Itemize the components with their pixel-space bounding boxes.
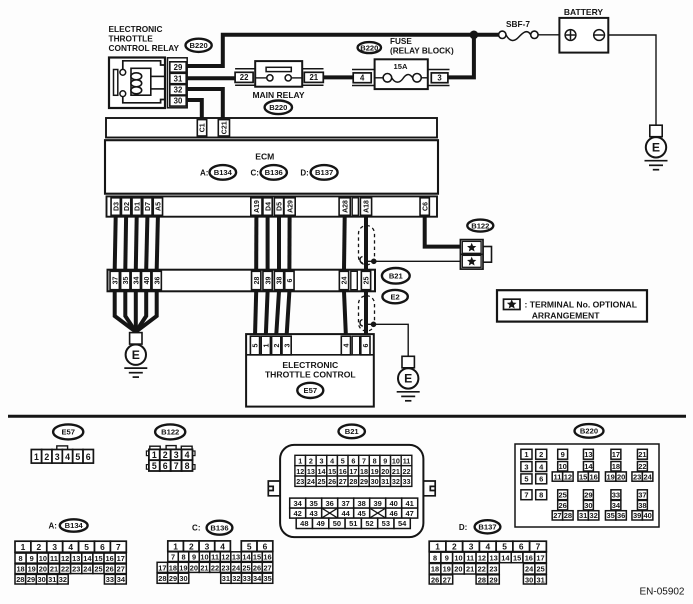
svg-text:24: 24 xyxy=(83,565,92,574)
svg-text:1: 1 xyxy=(524,450,528,459)
svg-text:15: 15 xyxy=(94,554,102,563)
svg-text:23: 23 xyxy=(72,565,80,574)
ETC pin 5 xyxy=(250,336,259,355)
svg-text:D1: D1 xyxy=(134,202,141,211)
svg-text:32: 32 xyxy=(589,511,597,520)
svg-text:D7: D7 xyxy=(145,202,152,211)
svg-text:MAIN RELAY: MAIN RELAY xyxy=(252,90,304,100)
bar pin 36 xyxy=(152,271,161,289)
ECM top connector row with C1 C21 xyxy=(106,118,437,138)
svg-text:52: 52 xyxy=(365,519,373,528)
svg-text:24: 24 xyxy=(525,565,534,574)
svg-text:3: 3 xyxy=(174,450,179,460)
svg-text:12: 12 xyxy=(221,553,229,562)
ground E (left, ECM grounds) xyxy=(130,333,142,345)
svg-text:23: 23 xyxy=(296,477,304,486)
svg-text:38: 38 xyxy=(358,499,366,508)
svg-text:32: 32 xyxy=(392,477,400,486)
svg-text:29: 29 xyxy=(360,477,368,486)
svg-text:47: 47 xyxy=(406,509,414,518)
svg-text:11: 11 xyxy=(466,553,474,562)
svg-text:13: 13 xyxy=(490,553,498,562)
ETC pin 3 xyxy=(282,336,291,355)
svg-text:B136: B136 xyxy=(210,523,228,532)
svg-text:7: 7 xyxy=(536,542,541,552)
svg-text:26: 26 xyxy=(253,563,261,572)
svg-text:12: 12 xyxy=(564,472,572,481)
ECM pin D4 xyxy=(263,198,272,216)
svg-text:28: 28 xyxy=(349,477,357,486)
svg-text:6: 6 xyxy=(519,542,524,552)
svg-text:6: 6 xyxy=(351,456,355,465)
svg-text:36: 36 xyxy=(326,499,334,508)
ECM pin A19 xyxy=(251,198,262,216)
connector label B21 xyxy=(382,268,410,284)
legend: terminal no. optional arrangement xyxy=(497,290,647,321)
svg-text:32: 32 xyxy=(232,574,240,583)
svg-text:33: 33 xyxy=(403,477,411,486)
wire D7 to 40 xyxy=(146,217,147,270)
connector label B220 (ETC relay) xyxy=(186,39,212,52)
svg-text:43: 43 xyxy=(310,509,318,518)
svg-text:8: 8 xyxy=(181,553,185,562)
connector label B136 xyxy=(261,165,287,180)
svg-text:28: 28 xyxy=(478,575,486,584)
svg-text:B136: B136 xyxy=(265,168,283,177)
svg-text:5: 5 xyxy=(84,542,89,552)
svg-text:17: 17 xyxy=(612,450,620,459)
svg-text:26: 26 xyxy=(328,477,336,486)
svg-text:4: 4 xyxy=(220,541,225,551)
svg-text:E57: E57 xyxy=(304,386,318,395)
svg-text:A5: A5 xyxy=(156,202,163,211)
svg-text:7: 7 xyxy=(171,553,175,562)
svg-text:29: 29 xyxy=(489,575,497,584)
svg-text:40: 40 xyxy=(390,499,398,508)
svg-text:4: 4 xyxy=(185,450,190,460)
svg-text:28: 28 xyxy=(254,277,261,285)
svg-text:10: 10 xyxy=(454,553,462,562)
svg-text:6: 6 xyxy=(86,452,91,462)
svg-text:24: 24 xyxy=(342,277,349,285)
svg-text:E: E xyxy=(652,141,660,155)
svg-text:12: 12 xyxy=(296,467,304,476)
svg-text:19: 19 xyxy=(28,565,36,574)
ETC pin 6 xyxy=(361,336,370,355)
svg-text:39: 39 xyxy=(265,277,272,285)
svg-text:3: 3 xyxy=(284,343,291,347)
svg-text:7: 7 xyxy=(524,491,528,500)
electronic throttle control unit E57 xyxy=(246,334,374,407)
svg-text:11: 11 xyxy=(211,553,219,562)
svg-text:6: 6 xyxy=(363,343,370,347)
svg-text:31: 31 xyxy=(222,574,230,583)
wire: battery feed to fusible link xyxy=(474,33,499,37)
ECM pin C6 xyxy=(420,198,429,216)
svg-text:22: 22 xyxy=(61,565,69,574)
svg-text:B134: B134 xyxy=(65,521,84,530)
svg-text:32: 32 xyxy=(174,86,183,95)
bar pin 40 xyxy=(142,271,151,289)
svg-text:34: 34 xyxy=(294,499,303,508)
svg-text:28: 28 xyxy=(158,574,166,583)
svg-text:6: 6 xyxy=(539,475,543,484)
relay armature bar xyxy=(114,70,118,96)
wire 38 to ETC xyxy=(276,291,279,336)
svg-text:15: 15 xyxy=(328,467,336,476)
svg-text:29: 29 xyxy=(169,574,177,583)
svg-text:37: 37 xyxy=(342,499,350,508)
svg-text:11: 11 xyxy=(553,472,561,481)
B21 pins 48-54 xyxy=(296,518,312,528)
wire: relay pin 30 to ECM C1 xyxy=(187,100,202,121)
svg-text:D4: D4 xyxy=(265,202,272,211)
svg-text:C1: C1 xyxy=(199,123,206,132)
svg-text:10: 10 xyxy=(392,456,400,465)
svg-text:15: 15 xyxy=(513,553,521,562)
svg-text:ELECTRONIC: ELECTRONIC xyxy=(109,24,163,34)
svg-text:A:: A: xyxy=(48,521,56,530)
svg-text:30: 30 xyxy=(584,501,592,510)
svg-text:ECM: ECM xyxy=(255,151,274,161)
bar pin 34 xyxy=(131,271,140,289)
svg-text:3: 3 xyxy=(319,456,323,465)
svg-text:33: 33 xyxy=(612,491,620,500)
wire A5 to 36 xyxy=(157,217,158,270)
ground E (battery) xyxy=(650,125,662,137)
wire D2 to 35 xyxy=(123,217,128,270)
svg-text:25: 25 xyxy=(558,491,566,500)
bar pin 37 xyxy=(110,271,119,289)
connector label E2 xyxy=(382,290,407,303)
svg-text:25: 25 xyxy=(317,477,325,486)
relay coil xyxy=(131,68,151,95)
svg-text:13: 13 xyxy=(307,467,315,476)
svg-text:10: 10 xyxy=(558,462,566,471)
svg-text:22: 22 xyxy=(211,563,219,572)
svg-text:36: 36 xyxy=(154,277,161,285)
svg-text:30: 30 xyxy=(174,97,183,106)
wire: main relay pin 21 to fuse pin 4 xyxy=(322,75,354,79)
bar pin 25 xyxy=(361,271,370,289)
svg-text:24: 24 xyxy=(232,563,241,572)
svg-text:E: E xyxy=(404,372,412,386)
B122 pin * (upper) xyxy=(467,243,476,252)
svg-text:28: 28 xyxy=(16,575,24,584)
svg-text:10: 10 xyxy=(200,553,208,562)
connector E57 pin layout xyxy=(57,446,68,450)
svg-text:1: 1 xyxy=(173,541,178,551)
wire: fusible link to battery + xyxy=(538,34,559,36)
svg-text:9: 9 xyxy=(30,554,34,563)
svg-text:(RELAY BLOCK): (RELAY BLOCK) xyxy=(390,46,454,55)
svg-text:8: 8 xyxy=(433,553,437,562)
svg-text:2: 2 xyxy=(189,541,194,551)
svg-text:1: 1 xyxy=(34,452,39,462)
svg-text:ARRANGEMENT: ARRANGEMENT xyxy=(532,311,601,321)
wire 28 to ETC xyxy=(255,291,256,336)
svg-text:26: 26 xyxy=(105,565,113,574)
svg-text:26: 26 xyxy=(431,575,439,584)
funnel wires: pins 37/35/34/40/36 to ground xyxy=(115,291,136,332)
svg-text:31: 31 xyxy=(48,575,56,584)
svg-text:16: 16 xyxy=(263,553,271,562)
svg-text:41: 41 xyxy=(406,499,414,508)
svg-text:3: 3 xyxy=(55,452,60,462)
svg-text:26: 26 xyxy=(558,501,566,510)
svg-text:35: 35 xyxy=(123,277,130,285)
wire A19 to 28 xyxy=(254,217,258,270)
connector label B122 (pin layout) xyxy=(155,424,185,439)
svg-text:21: 21 xyxy=(50,565,58,574)
svg-text:B220: B220 xyxy=(269,103,287,112)
svg-text:18: 18 xyxy=(16,565,24,574)
svg-text:25: 25 xyxy=(364,277,371,285)
svg-text:25: 25 xyxy=(242,563,250,572)
wire: relay pin 32 to ECM C21 xyxy=(187,89,223,121)
svg-text:29: 29 xyxy=(584,491,592,500)
svg-text:THROTTLE: THROTTLE xyxy=(109,34,154,44)
svg-text:23: 23 xyxy=(633,472,641,481)
svg-text:30: 30 xyxy=(37,575,45,584)
svg-text:35: 35 xyxy=(263,574,271,583)
wire D3 to 37 xyxy=(115,217,116,270)
B21 pins 1-33 xyxy=(295,455,306,465)
svg-text:B122: B122 xyxy=(471,221,489,230)
svg-text:28: 28 xyxy=(564,511,572,520)
svg-text:14: 14 xyxy=(584,462,593,471)
svg-text:A29: A29 xyxy=(287,200,294,213)
connector label B134 xyxy=(210,165,237,180)
svg-text:15: 15 xyxy=(253,553,261,562)
svg-text:34: 34 xyxy=(134,277,141,285)
svg-text:8: 8 xyxy=(185,461,190,471)
ECM pin D5 xyxy=(274,198,283,216)
svg-text:42: 42 xyxy=(294,509,302,518)
svg-text:53: 53 xyxy=(382,519,390,528)
svg-text:50: 50 xyxy=(333,519,341,528)
svg-text:CONTROL RELAY: CONTROL RELAY xyxy=(109,43,180,53)
svg-text:18: 18 xyxy=(360,467,368,476)
svg-text:25: 25 xyxy=(537,565,545,574)
svg-text:12: 12 xyxy=(61,554,69,563)
svg-text:D2: D2 xyxy=(124,202,131,211)
svg-text:6: 6 xyxy=(263,541,268,551)
svg-text:30: 30 xyxy=(525,575,533,584)
ECM pin A28 xyxy=(339,198,350,216)
svg-text:21: 21 xyxy=(638,450,646,459)
svg-text:48: 48 xyxy=(300,519,308,528)
svg-text:8: 8 xyxy=(373,456,377,465)
B21 pins 42-47 with blanked slots xyxy=(290,508,306,518)
svg-text:B137: B137 xyxy=(478,523,496,532)
bar pin 38 xyxy=(274,271,283,289)
svg-text:B21: B21 xyxy=(389,272,404,281)
bar pin 28 xyxy=(252,271,261,289)
svg-text:3: 3 xyxy=(524,462,528,471)
svg-text:30: 30 xyxy=(371,477,379,486)
svg-text:2: 2 xyxy=(163,450,168,460)
connector label B21 (pin layout) xyxy=(339,425,365,439)
B122 pin * (lower) xyxy=(467,257,476,266)
bar pin 35 xyxy=(121,271,130,289)
svg-text:45: 45 xyxy=(358,509,366,518)
svg-text:25: 25 xyxy=(94,565,102,574)
svg-text:44: 44 xyxy=(342,509,351,518)
relay contact circles xyxy=(120,69,126,75)
svg-text:35: 35 xyxy=(310,499,318,508)
connector B137 pin layout xyxy=(429,541,446,551)
svg-text:20: 20 xyxy=(381,467,389,476)
svg-text:5: 5 xyxy=(524,475,528,484)
svg-text:B122: B122 xyxy=(161,428,179,437)
svg-text:24: 24 xyxy=(307,477,315,486)
svg-text:17: 17 xyxy=(349,467,357,476)
wire D4 to 39 xyxy=(266,217,270,270)
svg-text:SBF-7: SBF-7 xyxy=(506,19,530,29)
svg-text:18: 18 xyxy=(169,563,177,572)
svg-text:23: 23 xyxy=(489,565,497,574)
connector B122 pin layout xyxy=(150,446,160,449)
svg-text:10: 10 xyxy=(39,554,47,563)
svg-text:EN-05902: EN-05902 xyxy=(639,586,684,597)
svg-text:31: 31 xyxy=(537,575,545,584)
svg-text:20: 20 xyxy=(454,565,462,574)
svg-text:3: 3 xyxy=(205,541,210,551)
svg-text:27: 27 xyxy=(339,477,347,486)
optional-arrangement dashed oval (upper, A18) xyxy=(359,226,375,265)
svg-text:B137: B137 xyxy=(315,168,333,177)
svg-text:17: 17 xyxy=(117,554,125,563)
svg-text:1: 1 xyxy=(264,343,271,347)
connector label B220 (pin layout) xyxy=(575,424,604,438)
wire: relay pin 31 to main relay pin 22 xyxy=(187,76,237,80)
svg-text:30: 30 xyxy=(179,574,187,583)
wire C6 to B122 xyxy=(425,217,461,247)
svg-text:9: 9 xyxy=(383,456,387,465)
svg-text:33: 33 xyxy=(243,574,251,583)
ECM pin D2 xyxy=(121,198,130,216)
svg-text:27: 27 xyxy=(263,563,271,572)
svg-text:D:: D: xyxy=(459,523,467,532)
svg-text:13: 13 xyxy=(232,553,240,562)
svg-text:7: 7 xyxy=(116,542,121,552)
svg-text:22: 22 xyxy=(240,73,249,82)
bar pin 6 xyxy=(285,271,294,289)
svg-text:3: 3 xyxy=(52,542,57,552)
svg-text:B220: B220 xyxy=(190,41,208,50)
connector label E57 (pin layout) xyxy=(53,424,83,439)
svg-text:1: 1 xyxy=(298,456,302,465)
svg-text:23: 23 xyxy=(221,563,229,572)
svg-text:2: 2 xyxy=(274,343,281,347)
svg-text:E2: E2 xyxy=(390,292,399,301)
svg-text:2: 2 xyxy=(44,452,49,462)
ETC pin 2 xyxy=(272,336,281,355)
svg-text:20: 20 xyxy=(617,472,625,481)
svg-text:34: 34 xyxy=(253,574,262,583)
svg-text:39: 39 xyxy=(633,511,641,520)
svg-text:15: 15 xyxy=(579,472,587,481)
svg-text:34: 34 xyxy=(117,575,126,584)
svg-text:22: 22 xyxy=(638,462,646,471)
svg-text:31: 31 xyxy=(579,511,587,520)
svg-text:14: 14 xyxy=(317,467,325,476)
svg-text:4: 4 xyxy=(344,343,351,347)
svg-text:9: 9 xyxy=(192,553,196,562)
wire: relay pin 29 to battery feed node xyxy=(187,35,474,66)
ECM pin A29 xyxy=(284,198,295,216)
wire D5 to 38 xyxy=(277,217,281,270)
junction dot on pin25 wire xyxy=(367,324,408,356)
main relay xyxy=(235,68,255,70)
svg-text:C:: C: xyxy=(192,523,200,532)
ECM body xyxy=(105,140,438,194)
svg-text:D3: D3 xyxy=(113,202,120,211)
svg-text:16: 16 xyxy=(589,472,597,481)
svg-text:D5: D5 xyxy=(277,202,284,211)
ETC pin 4 xyxy=(341,336,350,355)
svg-text:40: 40 xyxy=(643,511,651,520)
svg-text:C:: C: xyxy=(250,169,258,178)
svg-text:11: 11 xyxy=(403,456,411,465)
wire A29 to 6 xyxy=(287,217,291,270)
svg-text:46: 46 xyxy=(390,509,398,518)
svg-text:5: 5 xyxy=(253,343,260,347)
svg-text:39: 39 xyxy=(374,499,382,508)
svg-text:19: 19 xyxy=(179,563,187,572)
svg-text:5: 5 xyxy=(152,461,157,471)
svg-text:18: 18 xyxy=(612,462,620,471)
svg-text:4: 4 xyxy=(330,456,334,465)
svg-text:A18: A18 xyxy=(364,200,371,213)
wire D1 to 34 xyxy=(134,217,139,270)
svg-text:15A: 15A xyxy=(394,62,408,71)
svg-text:21: 21 xyxy=(466,565,474,574)
bar pin 24 xyxy=(339,271,348,289)
svg-text:C6: C6 xyxy=(422,202,429,211)
svg-text:2: 2 xyxy=(452,542,457,552)
svg-text:5: 5 xyxy=(341,456,345,465)
ETC pin 1 xyxy=(261,336,270,355)
svg-text:51: 51 xyxy=(349,519,357,528)
svg-text:22: 22 xyxy=(478,565,486,574)
wire 25 to ETC pin 6 xyxy=(364,291,368,336)
svg-text:33: 33 xyxy=(106,575,114,584)
svg-text:D:: D: xyxy=(300,169,308,178)
svg-text:14: 14 xyxy=(83,554,92,563)
separator line xyxy=(8,415,686,418)
junction node (battery feed) xyxy=(470,31,479,40)
wire A28 to 24 xyxy=(342,217,347,270)
svg-text:17: 17 xyxy=(158,563,166,572)
svg-text:12: 12 xyxy=(478,553,486,562)
svg-text:1: 1 xyxy=(435,542,440,552)
svg-text:20: 20 xyxy=(39,565,47,574)
svg-text:4: 4 xyxy=(360,74,365,83)
svg-text:8: 8 xyxy=(19,554,23,563)
svg-text:29: 29 xyxy=(174,63,183,72)
svg-text:38: 38 xyxy=(277,277,284,285)
svg-text:16: 16 xyxy=(525,553,533,562)
svg-text:E57: E57 xyxy=(61,428,75,437)
connector B220 pin layout xyxy=(515,444,659,527)
connector B122 (in-line) xyxy=(467,220,493,232)
ECM pin D1 xyxy=(132,198,141,216)
connector B134 pin layout xyxy=(15,541,31,552)
svg-text:B220: B220 xyxy=(580,427,598,436)
ground E (right) xyxy=(402,356,414,368)
